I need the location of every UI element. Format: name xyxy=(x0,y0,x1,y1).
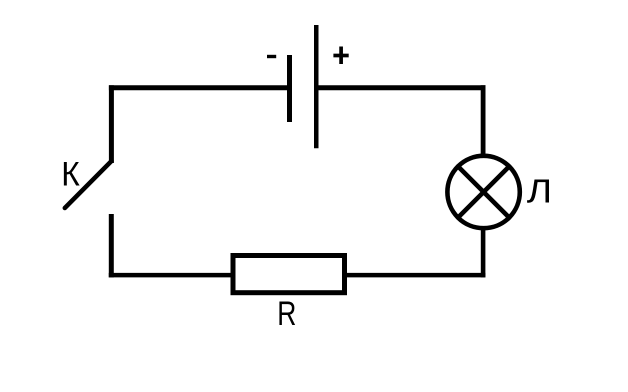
svg-text:R: R xyxy=(277,295,296,333)
svg-text:Л: Л xyxy=(527,172,552,210)
svg-text:К: К xyxy=(61,154,80,192)
